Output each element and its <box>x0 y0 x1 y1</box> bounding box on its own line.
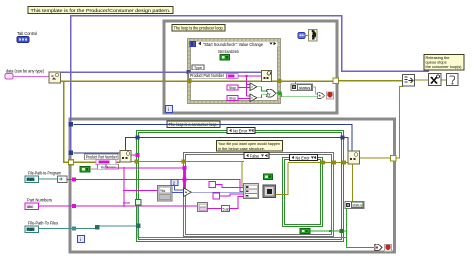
wire: PPN string to enqueue and comparisons (magenta) <box>238 75 262 96</box>
svg-text:False: False <box>250 154 259 159</box>
svg-text:the consumer loop(s).: the consumer loop(s). <box>426 64 463 69</box>
case structure: False (gray) <box>184 153 334 237</box>
svg-text:"Start Soundcheck": Value Chan: "Start Soundcheck": Value Change <box>203 42 263 47</box>
your-file comment label <box>217 141 283 152</box>
wire: dequeue string out to case tunnel (magenta) <box>131 153 140 157</box>
Or gate (producer event) <box>267 89 276 97</box>
event structure frame <box>188 39 281 104</box>
wire: tab terminal to property node <box>305 35 309 37</box>
svg-text:This template is for the Produ: This template is for the Producer/Consum… <box>31 8 171 13</box>
svg-text:status: status <box>352 203 362 208</box>
svg-text:in the below case structure.: in the below case structure. <box>218 146 265 151</box>
Unbundle By Name: status (producer) <box>291 84 313 91</box>
wire: status boolean to Or2 (thin green) <box>313 87 318 94</box>
Write to Text File node <box>263 185 276 198</box>
KeyFocus property box <box>98 164 119 169</box>
tunnel: queue upper run into consumer loop (navy) <box>69 122 74 127</box>
Product Part Number string indicator (consumer) <box>96 160 116 165</box>
wire: queue to dequeue (navy) <box>74 152 121 154</box>
case structure: inner No Error (green) <box>283 158 323 227</box>
wire: error down branch to consumer loop (olive) <box>64 81 121 162</box>
wire: Or out to loop conditional (thin green) <box>275 91 318 97</box>
svg-text:Product Part Number: Product Part Number <box>86 155 117 160</box>
wire: producer error to merge errors (olive) <box>339 80 403 82</box>
tunnel: consumer error out of loop (olive ring) <box>391 156 397 162</box>
Stop string constant 1 <box>227 85 250 90</box>
path sink terminal (green square above files wire) <box>136 200 142 206</box>
wire: part numbers into loop (magenta) <box>39 204 199 208</box>
string constant small 2 <box>213 193 244 199</box>
Start Soundcheck label <box>218 49 239 54</box>
wire: data to Obtain Queue (pink) <box>13 76 49 78</box>
wire: queue refnum down branch to consumer loop (purple) <box>70 72 72 151</box>
wire: queue refnum trunk (purple) to enqueue <box>61 71 262 73</box>
selector: consumer No Error <box>227 128 255 134</box>
wire: olive drop to unbundle status <box>295 81 297 84</box>
consumer loop conditional terminal <box>385 245 392 252</box>
string-to-path small node <box>208 197 245 212</box>
Release Queue node <box>429 74 442 86</box>
wire: queue-out of dequeue up and right (navy) <box>126 136 349 152</box>
svg-text:Path: Path <box>27 178 34 182</box>
tab control label <box>17 31 37 37</box>
wire: error from enqueue to producer loop edge (olive) <box>272 80 337 82</box>
svg-text:No Error: No Error <box>296 156 310 161</box>
True constant (False case, bottom) <box>300 229 347 234</box>
svg-text:Type: Type <box>194 65 203 70</box>
svg-text:KeyFocus: KeyFocus <box>101 165 116 170</box>
Part Numbers label <box>27 198 53 204</box>
Product Part Number label (producer) <box>189 73 227 78</box>
tunnel: error out of producer loop (olive ring) <box>333 78 339 84</box>
string constant small 1 <box>209 182 244 188</box>
File-Path-to-Program label <box>28 171 61 177</box>
consumer loop iteration terminal <box>78 236 85 244</box>
Merge Errors node <box>403 75 415 87</box>
tunnel: queue through event border left (purple) <box>187 70 191 74</box>
Stop string constant 2 <box>227 95 250 100</box>
case structure: consumer No Error (outer, green) <box>137 131 344 242</box>
consumer while loop <box>70 119 395 252</box>
Or gate (producer stop) <box>317 93 324 99</box>
wire: files path into loop (teal) <box>39 205 347 238</box>
Or gate (consumer stop) <box>375 244 383 251</box>
True constant (inner case) <box>264 174 273 180</box>
Dequeue Element node (consumer) <box>120 151 131 163</box>
Start Soundcheck boolean terminal <box>220 55 230 61</box>
Path To String conversion node <box>39 176 68 183</box>
numeric constant (blue) <box>171 180 184 191</box>
svg-text:Stop: Stop <box>229 85 237 90</box>
True constant for KeyFocus <box>80 167 98 173</box>
Format Into String node <box>158 186 173 202</box>
Product Part Number string terminal (producer) <box>227 74 238 79</box>
consumer loop comment label <box>167 121 220 128</box>
equal? comparison node 1 <box>250 83 257 91</box>
svg-text:status: status <box>299 85 310 90</box>
wire: queue inside consumer loop upper run (navy) <box>74 125 353 152</box>
concatenate/compare triangle node (consumer) <box>184 188 192 197</box>
tunnel: error through event border right (olive) <box>278 79 282 83</box>
wire: queue refnum upper branch over producer loop (purple) <box>71 16 430 73</box>
magenta bus below dequeue <box>106 164 244 206</box>
selector: False <box>244 153 269 159</box>
data variant terminal <box>5 74 13 80</box>
svg-text:Path: Path <box>27 228 34 232</box>
wire: merge errors to release queue (olive) <box>415 79 430 81</box>
Part Numbers string array terminal <box>25 203 39 210</box>
releasing queue comment label <box>424 55 464 71</box>
tunnel: queue into consumer loop (navy) <box>69 151 74 156</box>
wire: release queue to error handler (olive) <box>441 79 448 81</box>
svg-text:abc: abc <box>27 205 33 209</box>
wire: error down to status indicator (olive) <box>352 164 354 201</box>
tab control terminal <box>17 37 29 43</box>
producer loop iteration terminal <box>166 106 173 114</box>
status indicator (consumer) <box>345 202 364 209</box>
svg-text:Start Soundcheck: Start Soundcheck <box>218 49 239 54</box>
selector: inner No Error <box>290 155 318 161</box>
Product Part Number label box (consumer) <box>85 154 119 160</box>
svg-text:i: i <box>168 107 169 113</box>
tab control terminal inside producer loop <box>298 33 305 39</box>
wire: program path string into loop (magenta) <box>67 177 124 181</box>
queue status node (consumer right) <box>348 151 360 164</box>
wire: dequeue error out to case (olive) <box>131 160 244 187</box>
Enqueue Element node <box>262 71 272 82</box>
Obtain Queue node <box>49 72 61 83</box>
Part Numbers index node <box>198 203 208 212</box>
tunnel: error through event border left (olive) <box>188 79 192 83</box>
wire: write node error out up and right (olive) <box>276 161 349 195</box>
Type event data node <box>192 65 204 70</box>
data (can be any type) label <box>6 69 44 75</box>
wire: status boolean down to Or (thin green) <box>347 209 375 248</box>
svg-text:Product Part Number: Product Part Number <box>190 73 225 78</box>
svg-text:The loop is the producer loop.: The loop is the producer loop. <box>174 26 224 31</box>
event structure header bar <box>190 41 278 47</box>
top comment label <box>28 7 173 14</box>
tunnel: error into consumer loop (olive ring) <box>69 160 74 165</box>
svg-text:No Error: No Error <box>233 129 247 134</box>
wire: consumer error up to merge errors (olive) <box>360 86 404 158</box>
svg-text:%s: %s <box>160 189 165 193</box>
producer while loop <box>164 21 337 113</box>
svg-text:i: i <box>80 237 81 243</box>
producer loop comment label <box>172 25 225 32</box>
svg-text:Stop: Stop <box>229 95 237 100</box>
File-Path-to-Program path terminal <box>25 176 39 183</box>
property node (producer) <box>309 30 318 42</box>
Simple Error Handler node <box>447 74 459 86</box>
equal? comparison node 2 <box>250 94 257 102</box>
File-Path-To Files path terminal <box>25 226 39 233</box>
wire: comparisons to Or (thin green) <box>257 87 267 98</box>
svg-text:5:ab: 5:ab <box>223 207 230 211</box>
wire: error trunk (olive) from obtain queue to event structure <box>61 80 262 82</box>
producer loop conditional terminal <box>327 92 334 99</box>
Open/Create/Replace File node <box>244 184 259 199</box>
wire: format node to triangle and onward (navy thin) <box>172 191 244 193</box>
File-Path-To Files label <box>28 221 58 227</box>
